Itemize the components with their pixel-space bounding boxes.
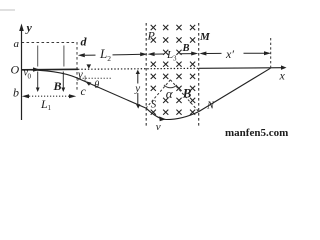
svg-text:b: b [13,86,19,100]
svg-text:1: 1 [83,75,87,83]
svg-text:x: x [279,69,286,83]
svg-text:v: v [156,121,161,133]
svg-text:N: N [206,100,215,111]
svg-text:M: M [199,31,211,43]
svg-text:y: y [134,83,140,95]
svg-text:3: 3 [173,55,177,63]
svg-text:O: O [11,63,20,77]
svg-text:θ: θ [94,80,99,91]
svg-text:B: B [182,86,192,101]
svg-text:y: y [25,21,33,35]
svg-text:1: 1 [48,104,52,112]
svg-text:c: c [81,84,87,98]
svg-text:a: a [14,38,20,50]
svg-text:2: 2 [107,54,111,63]
svg-text:manfen5.com: manfen5.com [225,127,288,138]
svg-text:B: B [53,79,62,93]
svg-text:L: L [99,46,107,61]
svg-text:d: d [81,35,88,49]
svg-text:0: 0 [28,73,32,81]
svg-text:P: P [147,29,156,43]
svg-text:α: α [166,86,174,101]
svg-text:B: B [182,43,190,54]
svg-text:S: S [151,99,157,111]
svg-text:x′: x′ [225,47,234,61]
